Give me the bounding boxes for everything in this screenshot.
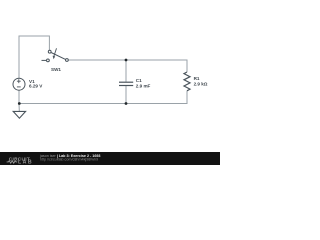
wire: switch right terminal to top-right corner and down to R1	[68, 60, 187, 72]
wire: V1 bottom lead to ground node	[18, 90, 20, 111]
svg-text:2.9 kΩ: 2.9 kΩ	[194, 82, 208, 87]
resistor R1	[184, 72, 190, 91]
capacitor C1	[119, 82, 133, 85]
svg-text:LAB: LAB	[18, 160, 33, 165]
svg-text:2.9 mF: 2.9 mF	[136, 83, 151, 88]
svg-text:R1: R1	[194, 76, 200, 81]
voltage source V1	[13, 78, 25, 90]
CircuitLab logo: resistor zigzag	[7, 161, 18, 163]
svg-text:http //circuitlab.com/c8hm4kj9: http //circuitlab.com/c8hm4kj98fwh9	[40, 157, 98, 161]
footer bar	[0, 152, 220, 165]
node: junction dot bottom at C1	[125, 102, 128, 105]
ground	[13, 111, 25, 118]
node: junction dot at V1/ground	[18, 102, 21, 105]
svg-text:6.29 V: 6.29 V	[29, 84, 43, 89]
svg-text:SW1: SW1	[51, 67, 61, 72]
wire: C1 top lead	[125, 60, 127, 82]
wire: V1 top to switch top terminal	[19, 36, 49, 78]
wire: bottom rail and R1 bottom lead	[19, 91, 187, 104]
wire: C1 bottom lead	[125, 85, 127, 103]
switch SW1	[42, 48, 69, 62]
node: junction dot top at C1	[125, 59, 128, 62]
